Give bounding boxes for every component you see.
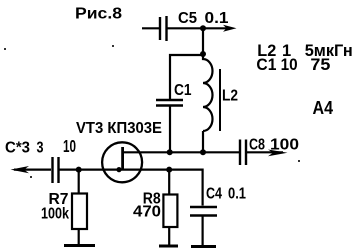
wire top node down to L2 node	[202, 28, 204, 54]
svg-text:75: 75	[310, 56, 330, 74]
ground under R8	[159, 227, 178, 246]
speck marks	[4, 45, 300, 178]
svg-text:L2: L2	[222, 88, 238, 105]
output arrow right	[247, 150, 288, 157]
ground under R7	[64, 229, 95, 246]
svg-text:С1: С1	[256, 56, 276, 74]
svg-text:VT3 КП303Е: VT3 КП303Е	[76, 120, 162, 137]
wire C5 to top node	[168, 27, 204, 29]
svg-text:Рис.8: Рис.8	[75, 6, 122, 23]
wire L2 bottom to drain rail	[202, 131, 204, 152]
resistor R8	[163, 170, 177, 227]
table row L2 1 5mkGn	[257, 42, 352, 60]
svg-text:0.1: 0.1	[205, 10, 229, 27]
transistor VT3 KP303E	[102, 142, 142, 182]
svg-text:C1: C1	[174, 82, 192, 99]
wire C1 to drain rail	[169, 107, 171, 153]
inductor L2	[203, 55, 220, 131]
node drain L2 junction	[200, 149, 206, 155]
capacitor C4	[190, 207, 217, 216]
wire top rail left lead	[142, 27, 159, 29]
wire gate line	[60, 169, 123, 171]
svg-text:10: 10	[281, 56, 298, 74]
resistor R7	[72, 170, 87, 229]
wire source rail	[123, 170, 203, 206]
svg-text:C8: C8	[249, 137, 265, 154]
svg-text:C5: C5	[178, 10, 197, 27]
svg-text:C4: C4	[206, 186, 222, 203]
capacitor C5	[160, 16, 167, 41]
output arrow top	[203, 25, 237, 32]
capacitor C1	[156, 100, 183, 106]
ground under C4	[191, 217, 216, 247]
node top junction	[200, 25, 206, 31]
table row C1 10 75	[256, 56, 330, 74]
svg-text:0.1: 0.1	[228, 186, 246, 203]
svg-text:А4: А4	[313, 98, 334, 118]
svg-text:470: 470	[133, 204, 161, 221]
capacitor C*3	[53, 157, 59, 183]
svg-text:С*3: С*3	[5, 140, 30, 157]
node gate junction	[76, 167, 82, 173]
node L2 top junction	[200, 51, 206, 57]
wire branch to C1	[170, 55, 203, 99]
node source R8 junction	[166, 167, 172, 173]
input arrow left	[11, 166, 52, 173]
wire drain rail	[123, 151, 239, 153]
svg-text:3: 3	[37, 140, 44, 157]
svg-text:10: 10	[63, 136, 76, 156]
capacitor C8	[240, 140, 246, 166]
node drain C1 junction	[167, 149, 173, 155]
svg-text:100k: 100k	[41, 206, 69, 223]
